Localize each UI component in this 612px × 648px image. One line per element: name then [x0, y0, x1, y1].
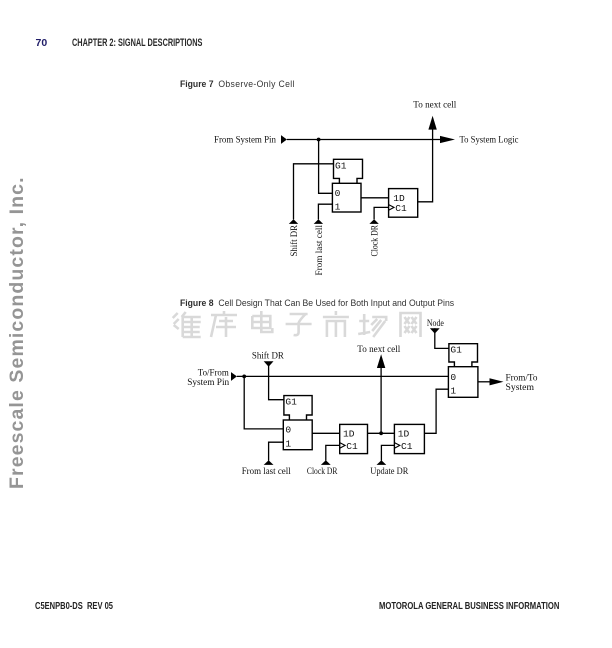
- wire: mux output to flip-flop 1D input: [361, 197, 389, 199]
- arrow: Shift DR (up): [289, 219, 298, 224]
- watermark char 3 (dian): [252, 311, 272, 332]
- wire: main horizontal to output mux 0 input: [237, 375, 449, 377]
- label: G1 pin: [335, 160, 347, 171]
- svg-text:From last cell: From last cell: [242, 467, 291, 477]
- label: mux input 1: [335, 202, 341, 213]
- watermark char 7 (wang): [401, 313, 421, 337]
- svg-text:0: 0: [450, 372, 456, 383]
- label: 1D pin (ff1): [343, 429, 355, 440]
- label: Shift DR: [252, 351, 285, 362]
- label: To next cell (fig8): [357, 345, 400, 355]
- arrow: Shift DR (down): [264, 361, 274, 366]
- label: 1D pin (ff2): [398, 429, 410, 440]
- wire: ff1 output to ff2 1D input: [368, 432, 395, 434]
- label: From last cell (vertical): [315, 225, 325, 276]
- wire: ff2 output up to output mux 1 input: [424, 389, 448, 433]
- arrow: Clock DR (up): [369, 219, 378, 224]
- label: From last cell: [242, 467, 291, 477]
- svg-text:0: 0: [285, 424, 291, 435]
- svg-text:From System Pin: From System Pin: [214, 136, 276, 146]
- label: Update DR: [370, 467, 409, 477]
- junction: node on main wire: [317, 138, 321, 142]
- label: Clock DR (vertical): [371, 224, 381, 256]
- wire: junction up to next cell: [380, 368, 382, 434]
- wire: Clock DR stub to ff1 C1: [326, 445, 340, 460]
- label: G1 pin (output mux): [450, 345, 462, 356]
- label: To next cell: [413, 101, 456, 111]
- svg-text:0: 0: [335, 188, 341, 199]
- svg-text:System: System: [506, 383, 535, 393]
- wire: main horizontal From System Pin to To System Logic: [287, 139, 441, 141]
- label: G1 pin (input mux): [285, 397, 297, 408]
- sidebar: Freescale Semiconductor, Inc.: [6, 176, 29, 489]
- label: From System Pin: [214, 136, 276, 146]
- wire: From last cell stub to mux 1 input: [318, 204, 332, 219]
- label: C1 pin (ff1): [346, 441, 358, 452]
- arrow: Node (down): [430, 328, 440, 333]
- output mux U3 body: [448, 367, 478, 398]
- svg-text:1D: 1D: [398, 429, 410, 440]
- arrow: to next cell (up): [428, 116, 436, 130]
- svg-text:To System Logic: To System Logic: [460, 136, 519, 146]
- watermark char 6 (chang): [358, 314, 386, 337]
- svg-text:1: 1: [450, 385, 456, 396]
- page number 70: [36, 37, 48, 49]
- arrow: Update DR (up): [377, 460, 387, 465]
- label: input mux input 1: [285, 438, 291, 449]
- wire: junction down to mux 0 input: [319, 140, 333, 194]
- svg-text:Clock DR: Clock DR: [307, 467, 338, 477]
- arrow: To System Logic: [440, 136, 455, 143]
- footer left: [35, 601, 113, 612]
- label: C1 pin: [395, 203, 407, 214]
- wire: flip-flop output up to next cell: [418, 129, 433, 201]
- svg-text:1: 1: [335, 202, 341, 213]
- arrow: to next cell (up): [377, 354, 385, 368]
- wire: From last cell stub to input mux 1 input: [269, 442, 284, 460]
- label: input mux input 0: [285, 424, 291, 435]
- wire: Node down to output mux G1 input: [435, 328, 449, 348]
- svg-text:Update DR: Update DR: [370, 467, 409, 477]
- label: mux input 0: [335, 188, 341, 199]
- svg-text:To next cell: To next cell: [413, 101, 456, 111]
- flip-flop U2 body: [389, 189, 418, 218]
- svg-text:Node: Node: [427, 319, 444, 329]
- svg-text:1: 1: [285, 438, 291, 449]
- wire: Shift DR down to G1 select input: [269, 362, 284, 400]
- flip-flop U5 body: [340, 424, 368, 453]
- clock triangle: C1 dynamic input: [389, 205, 394, 211]
- mux U1 body: [332, 183, 361, 212]
- svg-text:System Pin: System Pin: [187, 378, 229, 388]
- svg-text:Clock DR: Clock DR: [371, 224, 381, 256]
- svg-text:Shift DR: Shift DR: [252, 351, 285, 362]
- wire: output mux to From/To System: [478, 381, 491, 383]
- label: To/From System Pin: [187, 368, 229, 388]
- svg-text:C1: C1: [346, 441, 358, 452]
- svg-text:From/To: From/To: [506, 373, 538, 383]
- pin arrow: To/From System Pin: [231, 372, 237, 381]
- wire: Shift DR stub to G1 select input: [294, 164, 334, 220]
- figure 8 caption: [180, 297, 454, 308]
- figure 7 caption: [180, 78, 295, 89]
- junction: dot on main wire: [242, 375, 246, 379]
- label: Node: [427, 319, 444, 329]
- mux U1 select block G1: [334, 159, 363, 183]
- footer right: [379, 601, 559, 612]
- arrow: Clock DR (up): [321, 460, 331, 465]
- wire: Update DR stub to ff2 C1: [381, 445, 394, 460]
- svg-text:To/From: To/From: [198, 368, 230, 378]
- svg-text:G1: G1: [450, 345, 462, 356]
- chapter header: [72, 37, 202, 49]
- label: 1D pin: [393, 193, 405, 204]
- flip-flop U6 body: [394, 424, 424, 453]
- watermark char 4 (zi): [286, 314, 312, 335]
- svg-text:To next cell: To next cell: [357, 345, 400, 355]
- label: To System Logic: [460, 136, 519, 146]
- label: Shift DR (vertical): [289, 224, 300, 256]
- output mux U3 select block G1: [449, 344, 478, 367]
- clock triangle: C1 dynamic input (ff1): [340, 443, 345, 449]
- svg-text:From last cell: From last cell: [315, 225, 325, 276]
- label: From/To System: [506, 373, 538, 393]
- svg-text:Shift DR: Shift DR: [289, 224, 300, 256]
- watermark char 1 (wei): [173, 312, 201, 337]
- watermark char 2 (ku): [211, 311, 237, 337]
- label: output mux input 1: [450, 385, 456, 396]
- svg-text:1D: 1D: [343, 429, 355, 440]
- svg-text:G1: G1: [335, 160, 347, 171]
- arrow: From last cell (up): [264, 460, 274, 465]
- watermark char 5 (shi): [323, 311, 349, 337]
- svg-text:C1: C1: [395, 203, 407, 214]
- input mux U4 select block G1: [284, 396, 312, 420]
- wire: junction down to input mux 0 input: [244, 376, 283, 429]
- wire: Clock DR stub to C1 input: [374, 207, 389, 219]
- junction: dot between ff1 and ff2: [379, 431, 383, 435]
- pin arrow: From System Pin: [281, 135, 287, 144]
- input mux U4 body: [283, 420, 312, 450]
- label: Clock DR: [307, 467, 338, 477]
- arrow: From/To System: [490, 378, 504, 385]
- svg-text:C1: C1: [401, 441, 413, 452]
- label: output mux input 0: [450, 372, 456, 383]
- label: C1 pin (ff2): [401, 441, 413, 452]
- wire: input mux output to flip-flop 1: [312, 432, 340, 434]
- svg-text:G1: G1: [285, 397, 297, 408]
- clock triangle: C1 dynamic input (ff2): [394, 443, 399, 449]
- arrow: From last cell (up): [314, 219, 323, 224]
